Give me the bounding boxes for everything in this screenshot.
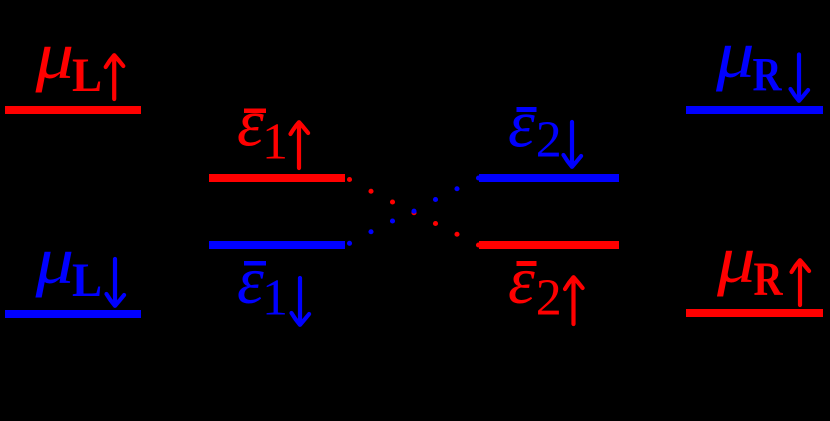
svg-text:L: L bbox=[72, 49, 102, 103]
label mu_R_down bbox=[715, 16, 808, 101]
level line mu_R_down bbox=[686, 106, 823, 114]
level line mu_L_up bbox=[5, 106, 141, 114]
svg-text:μ: μ bbox=[716, 221, 756, 297]
label mu_L_up bbox=[34, 17, 123, 102]
svg-text:ε: ε bbox=[508, 85, 535, 161]
level line eps2_up bbox=[479, 241, 619, 249]
label eps2_down bbox=[508, 85, 581, 168]
svg-text:2: 2 bbox=[536, 270, 562, 327]
svg-text:ε: ε bbox=[508, 242, 535, 318]
svg-text:1: 1 bbox=[262, 270, 288, 327]
svg-text:2: 2 bbox=[536, 112, 562, 169]
svg-text:R: R bbox=[754, 253, 784, 306]
level line eps1_up bbox=[209, 174, 345, 182]
dotted line blue (eps1_down to eps2_down) bbox=[347, 175, 481, 245]
svg-text:L: L bbox=[72, 254, 102, 308]
label mu_R_up bbox=[716, 221, 809, 306]
svg-text:R: R bbox=[753, 48, 783, 101]
svg-text:μ: μ bbox=[715, 16, 755, 92]
label eps2_up bbox=[508, 242, 583, 327]
svg-text:ε: ε bbox=[237, 85, 264, 161]
svg-text:μ: μ bbox=[34, 17, 74, 93]
level line mu_L_down bbox=[5, 310, 141, 318]
level line eps1_down bbox=[209, 241, 345, 249]
svg-text:1: 1 bbox=[262, 114, 288, 171]
level line eps2_down bbox=[479, 174, 619, 182]
svg-text:μ: μ bbox=[34, 222, 74, 298]
label eps1_down bbox=[237, 242, 309, 327]
label eps1_up bbox=[237, 85, 308, 171]
level line mu_R_up bbox=[686, 309, 823, 317]
dotted line red (eps1_up to eps2_up) bbox=[347, 177, 481, 248]
svg-text:ε: ε bbox=[237, 242, 264, 318]
label mu_L_down bbox=[34, 222, 124, 307]
